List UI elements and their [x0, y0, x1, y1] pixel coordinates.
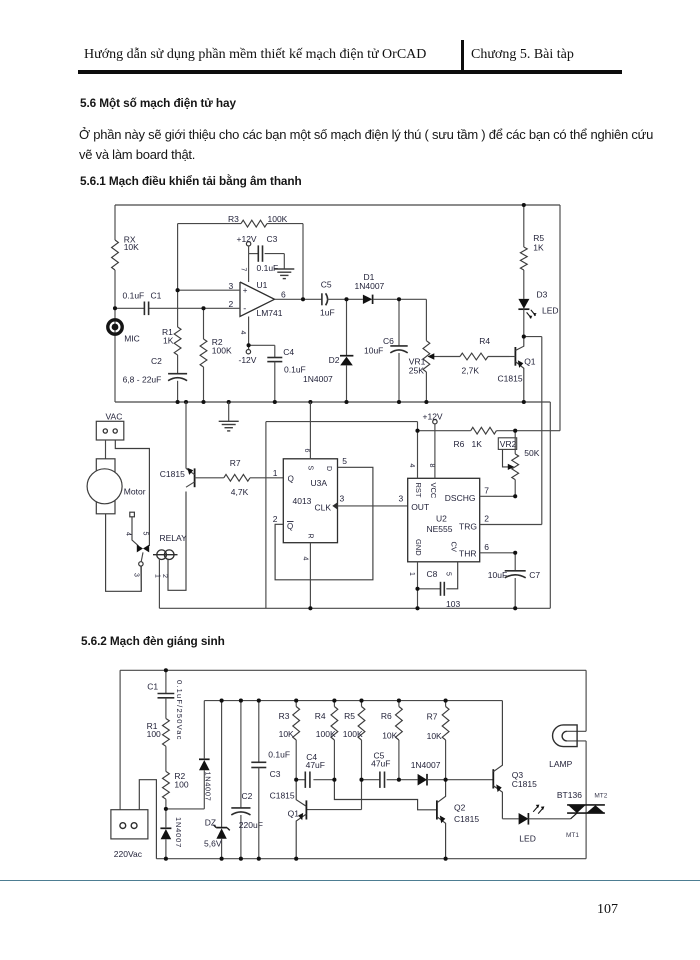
svg-text:C1815: C1815 [454, 814, 479, 824]
svg-text:MT2: MT2 [594, 792, 607, 799]
capacitor C4 [249, 345, 306, 402]
svg-text:50K: 50K [524, 448, 539, 458]
svg-text:2: 2 [484, 514, 489, 524]
svg-text:C4: C4 [283, 347, 294, 357]
svg-text:4,7K: 4,7K [231, 487, 249, 497]
svg-text:7: 7 [240, 268, 247, 272]
timer U2 NE555 [408, 478, 480, 562]
label pin4 [125, 532, 132, 536]
wire left edge (mains) [119, 670, 121, 809]
label 555 pin8 [428, 464, 435, 468]
section heading 5.6.1 [80, 174, 302, 188]
svg-text:3: 3 [399, 494, 404, 504]
wire relay pin1 [153, 559, 160, 608]
diode 1N4007 (rectifier) [199, 701, 212, 809]
wire op-amp pin4 [239, 317, 248, 346]
relay RELAY coil [153, 533, 187, 560]
svg-text:2,7K: 2,7K [462, 365, 480, 375]
svg-text:LAMP: LAMP [549, 759, 572, 769]
svg-text:1N4007: 1N4007 [355, 281, 385, 291]
junction dots on lower ground rail [308, 606, 517, 610]
svg-text:DSCHG: DSCHG [445, 493, 476, 503]
connector VAC [96, 411, 124, 440]
svg-text:220Vac: 220Vac [114, 849, 143, 859]
svg-text:OUT: OUT [411, 502, 429, 512]
svg-text:MT1: MT1 [566, 832, 579, 839]
potentiometer VR2 50K [498, 431, 539, 497]
svg-text:4: 4 [239, 331, 246, 335]
capacitor C6 [364, 299, 408, 402]
capacitor C1 0.1uF/250Vac [147, 670, 184, 740]
wire Q1 collector to trigger line [524, 337, 542, 525]
flip-flop U3A 4013 [283, 459, 337, 543]
svg-text:VAC: VAC [106, 411, 123, 421]
ground (C3 decoupling) [274, 254, 294, 279]
svg-text:10K: 10K [427, 731, 442, 741]
svg-text:C2: C2 [151, 356, 162, 366]
junction dots on input node [113, 288, 206, 310]
svg-text:R4: R4 [315, 711, 326, 721]
transistor Q2 C1815 (osc) [437, 780, 479, 859]
svg-text:5: 5 [444, 572, 451, 576]
svg-text:1K: 1K [163, 335, 174, 345]
svg-text:D2: D2 [329, 355, 340, 365]
svg-text:+12V: +12V [423, 411, 443, 421]
svg-text:1K: 1K [533, 242, 544, 252]
diode D2 1N4007 [303, 299, 353, 402]
svg-text:THR: THR [459, 548, 476, 558]
svg-text:8: 8 [428, 464, 435, 468]
capacitor C5 47uF [362, 750, 399, 788]
potentiometer VR1 25K [409, 299, 440, 402]
svg-text:DZ: DZ [205, 818, 216, 828]
svg-text:C1815: C1815 [498, 374, 523, 384]
junction dot rectified node [164, 807, 168, 811]
triac BT136 [557, 790, 608, 839]
header thick rule [78, 70, 622, 74]
wire reset loop vertical [265, 422, 267, 609]
junction dots on bottom rail [164, 857, 448, 861]
svg-text:5,6V: 5,6V [204, 838, 222, 848]
svg-text:0.1uF: 0.1uF [257, 263, 279, 273]
svg-text:1N4007: 1N4007 [203, 772, 212, 802]
op-amp U1 LM741 [240, 280, 283, 318]
wire motor to contact common [106, 514, 142, 592]
resistor R2 100 [163, 746, 189, 809]
paragraph [79, 125, 699, 166]
resistor R5 100K [343, 701, 365, 810]
junction dots on output line [247, 297, 402, 347]
wire DC bus rail [204, 700, 502, 702]
svg-text:S: S [306, 466, 313, 471]
svg-text:10K: 10K [124, 242, 139, 252]
svg-text:RST: RST [414, 483, 423, 498]
LED indicator [502, 805, 570, 844]
junction dot C8 node [415, 587, 419, 591]
svg-text:4013: 4013 [293, 496, 312, 506]
svg-text:1N4007: 1N4007 [411, 760, 441, 770]
LED D3 [518, 290, 558, 337]
capacitor C2 220uF [231, 701, 263, 859]
junction dots on VR2/C7 line [513, 494, 517, 555]
wire Q1 base jog [306, 809, 361, 811]
svg-text:-: - [243, 303, 246, 313]
svg-text:-12V: -12V [239, 355, 257, 365]
transistor C1815 relay driver [160, 402, 195, 487]
svg-text:C8: C8 [427, 569, 438, 579]
resistor RX [112, 240, 119, 270]
svg-text:0.1uF: 0.1uF [123, 290, 145, 300]
svg-text:+: + [243, 286, 248, 295]
footer rule [0, 880, 700, 882]
svg-text:0.1uF: 0.1uF [284, 364, 306, 374]
wire mains top rail [120, 669, 586, 671]
label 4013 pin1 [273, 468, 278, 478]
svg-text:D3: D3 [537, 290, 548, 300]
svg-text:C3: C3 [270, 769, 281, 779]
label 555 pin1 [408, 572, 415, 576]
svg-text:10K: 10K [279, 729, 294, 739]
header divider bar [461, 40, 464, 70]
capacitor C5 [320, 280, 363, 318]
resistor R6 1K [418, 427, 561, 449]
svg-text:R7: R7 [427, 711, 438, 721]
wire right edge [559, 205, 561, 431]
svg-text:C1815: C1815 [512, 779, 537, 789]
wire VAC pin2 to contact [115, 440, 149, 546]
svg-text:Q2: Q2 [454, 803, 466, 813]
svg-text:47uF: 47uF [306, 760, 325, 770]
resistor R4 2,7K [440, 336, 510, 376]
svg-text:6,8 - 22uF: 6,8 - 22uF [123, 375, 162, 385]
svg-text:GND: GND [414, 539, 423, 556]
svg-text:R3: R3 [279, 711, 290, 721]
svg-text:R: R [306, 534, 313, 539]
wire inverting input pin2 [115, 307, 240, 309]
svg-text:R3: R3 [228, 214, 239, 224]
svg-text:6: 6 [281, 289, 286, 299]
svg-text:C7: C7 [529, 570, 540, 580]
label pin6 [281, 289, 286, 299]
ground (main rail) [219, 402, 239, 431]
svg-text:4: 4 [302, 557, 309, 561]
svg-text:1N4007: 1N4007 [303, 374, 333, 384]
label 4013 pin3 [340, 494, 345, 504]
page number [597, 902, 618, 918]
svg-text:10K: 10K [382, 730, 397, 740]
svg-text:R4: R4 [479, 336, 490, 346]
header title right [471, 47, 574, 63]
svg-text:100K: 100K [268, 214, 288, 224]
power terminal +12V (555) [423, 411, 443, 478]
svg-text:0.1uF/250Vac: 0.1uF/250Vac [175, 680, 184, 741]
label 4013 pin5 [342, 456, 347, 466]
svg-text:CV: CV [450, 542, 459, 552]
svg-text:3: 3 [340, 494, 345, 504]
svg-text:C3: C3 [267, 234, 278, 244]
svg-text:10uF: 10uF [364, 346, 383, 356]
svg-text:1uF: 1uF [320, 307, 335, 317]
label pin2 [229, 299, 234, 309]
svg-text:100K: 100K [343, 729, 363, 739]
svg-text:U3A: U3A [311, 478, 328, 488]
svg-text:Motor: Motor [124, 487, 146, 497]
microphone MIC [108, 320, 140, 344]
svg-text:47uF: 47uF [371, 759, 390, 769]
svg-text:7: 7 [484, 486, 489, 496]
svg-text:1: 1 [153, 574, 160, 578]
svg-text:4: 4 [408, 464, 415, 468]
power terminal +12V [237, 234, 257, 254]
lamp LAMP [549, 725, 586, 769]
svg-text:C2: C2 [242, 791, 253, 801]
wire bottom rail [156, 858, 586, 860]
wire right edge triac-to-rail [585, 813, 587, 859]
wire TRG pin2 [480, 524, 542, 526]
svg-text:0.1uF: 0.1uF [268, 749, 290, 759]
label 555 pin5 [444, 572, 451, 576]
svg-text:2: 2 [161, 574, 168, 578]
wire VAC pin1 to motor [105, 440, 107, 459]
svg-text:CLK: CLK [315, 502, 332, 512]
resistor R7 10K [427, 701, 449, 780]
wire DSCHG pin7 [480, 495, 516, 497]
label 4013 pin6 [303, 449, 310, 453]
wire 4013 CLK to 555 OUT [338, 494, 408, 506]
resistor R5 1K [520, 205, 544, 299]
resistor R3 10K [279, 701, 300, 780]
svg-text:Q1: Q1 [524, 356, 536, 366]
svg-text:VCC: VCC [429, 483, 438, 499]
resistor R1 [162, 290, 181, 374]
wire 555 RST pin4 [417, 422, 419, 479]
resistor R4 100K [315, 701, 338, 780]
wire 220Vac neutral leg [139, 780, 156, 859]
svg-text:U2: U2 [436, 514, 447, 524]
wire non-inverting input pin3 [178, 289, 240, 291]
wire right vertical to lower stage [549, 402, 551, 608]
svg-text:6: 6 [484, 542, 489, 552]
svg-text:5: 5 [141, 532, 148, 536]
header title left [84, 47, 426, 63]
svg-text:10uF: 10uF [488, 570, 507, 580]
diode 1N4007 (to ground) [160, 809, 183, 859]
svg-text:Q: Q [287, 522, 293, 531]
wire relay pin2 [161, 492, 186, 591]
junction dots on ground rail [176, 400, 526, 404]
svg-text:C5: C5 [321, 280, 332, 290]
wire THR pin6 [480, 552, 516, 554]
wire reset loop horizontal [266, 421, 418, 423]
label pin3 [229, 281, 234, 291]
svg-text:C1815: C1815 [160, 469, 185, 479]
wire bottom rail (ground bus) [115, 401, 550, 403]
wire top supply rail (+) of audio circuit [115, 204, 560, 206]
section heading 5.6.2 [81, 634, 225, 648]
capacitor C8 103 [418, 562, 461, 609]
wire right edge lamp-to-triac [585, 741, 587, 805]
power terminal -12V [239, 345, 257, 365]
label R3 [228, 214, 288, 224]
svg-text:3: 3 [229, 281, 234, 291]
connector 220Vac [111, 810, 148, 860]
svg-text:2: 2 [229, 299, 234, 309]
svg-text:LM741: LM741 [257, 308, 283, 318]
svg-text:+12V: +12V [237, 234, 257, 244]
wire 4013 Q-bar to D loop [275, 467, 373, 580]
svg-text:BT136: BT136 [557, 790, 582, 800]
svg-text:NE555: NE555 [427, 524, 453, 534]
svg-text:LED: LED [542, 306, 559, 316]
resistor R6 10K [381, 701, 402, 780]
capacitor C7 10uF [488, 553, 541, 609]
svg-text:1N4007: 1N4007 [174, 817, 183, 848]
capacitor C4 47uF [296, 752, 334, 788]
junction dots on DC bus [220, 699, 448, 703]
wire 4013 R pin to ground rail [309, 543, 311, 609]
svg-text:Q1: Q1 [288, 809, 300, 819]
svg-text:R6: R6 [454, 439, 465, 449]
label 555 pin7 [484, 486, 489, 496]
label pin5 [141, 532, 148, 536]
svg-text:1: 1 [273, 468, 278, 478]
svg-text:6: 6 [303, 449, 310, 453]
svg-text:C1815: C1815 [270, 791, 295, 801]
transistor Q3 C1815 (lamp driver) [493, 701, 537, 819]
svg-text:1: 1 [408, 572, 415, 576]
contact common pin3 [132, 552, 143, 591]
svg-text:C1: C1 [147, 681, 158, 691]
svg-text:TRG: TRG [459, 521, 477, 531]
resistor R3 [241, 220, 267, 227]
resistor R2 [200, 308, 232, 402]
capacitor C3 0.1uF [251, 701, 290, 859]
svg-text:RELAY: RELAY [160, 533, 188, 543]
label 555 pin2 [484, 514, 489, 524]
svg-text:R5: R5 [344, 711, 355, 721]
junction dots on +12V line [415, 429, 517, 433]
resistor R7 4,7K [195, 458, 284, 497]
wire rectified node [166, 808, 204, 810]
svg-text:R6: R6 [381, 711, 392, 721]
svg-text:R7: R7 [230, 458, 241, 468]
svg-text:5: 5 [342, 456, 347, 466]
zener diode DZ 5,6V [204, 701, 230, 859]
svg-text:C1: C1 [151, 290, 162, 300]
motor M [87, 459, 146, 514]
svg-text:C6: C6 [383, 336, 394, 346]
wire 4013 S input [309, 402, 311, 459]
svg-text:VR2: VR2 [500, 439, 517, 449]
label 4013 pin2 [273, 514, 278, 524]
wire output pin6 [275, 298, 322, 300]
transistor Q1 C1815 [498, 337, 536, 402]
wire Q2 base jog [334, 780, 437, 810]
svg-text:Q: Q [288, 474, 294, 483]
svg-text:1K: 1K [472, 439, 483, 449]
wire 555 GND pin1 [417, 562, 419, 609]
svg-text:U1: U1 [257, 280, 268, 290]
terminal pin4 of contact [130, 512, 139, 546]
wire feedback from output to input node [178, 224, 303, 300]
capacitor C2 [123, 356, 188, 402]
diode 1N4007 (base drive) [399, 760, 493, 786]
svg-text:103: 103 [446, 599, 460, 609]
capacitor C1 [123, 290, 162, 315]
section heading 5.6 [80, 96, 236, 110]
svg-text:25K: 25K [409, 366, 424, 376]
label RX value [124, 235, 139, 253]
svg-text:100: 100 [147, 729, 161, 739]
label 555 pin6 [484, 542, 489, 552]
wire op-amp pin7 supply [240, 254, 249, 282]
junction dot Q1 collector node [522, 335, 526, 339]
label 555 pin4 [408, 464, 415, 468]
diode D1 1N4007 [355, 272, 427, 304]
wire lower ground rail [159, 607, 550, 609]
svg-text:LED: LED [519, 833, 536, 843]
svg-text:MIC: MIC [124, 334, 140, 344]
junction dot top rail [522, 203, 526, 207]
relay contact arrows [137, 545, 149, 553]
junction dots on coupling line [294, 778, 448, 782]
capacitor C3 [249, 234, 285, 273]
junction dot C1 top [164, 668, 168, 672]
svg-text:3: 3 [132, 573, 139, 577]
label 4013 pin4 [302, 557, 309, 561]
transistor Q1 C1815 (osc) [270, 780, 307, 859]
wire left edge [114, 205, 116, 402]
wire right edge upper (lamp feed) [585, 670, 587, 731]
svg-text:2: 2 [273, 514, 278, 524]
resistor R1 100 [147, 719, 170, 747]
svg-text:100: 100 [174, 779, 188, 789]
svg-text:100K: 100K [212, 345, 232, 355]
svg-text:D: D [325, 466, 332, 471]
svg-text:4: 4 [125, 532, 132, 536]
svg-text:100K: 100K [316, 729, 336, 739]
